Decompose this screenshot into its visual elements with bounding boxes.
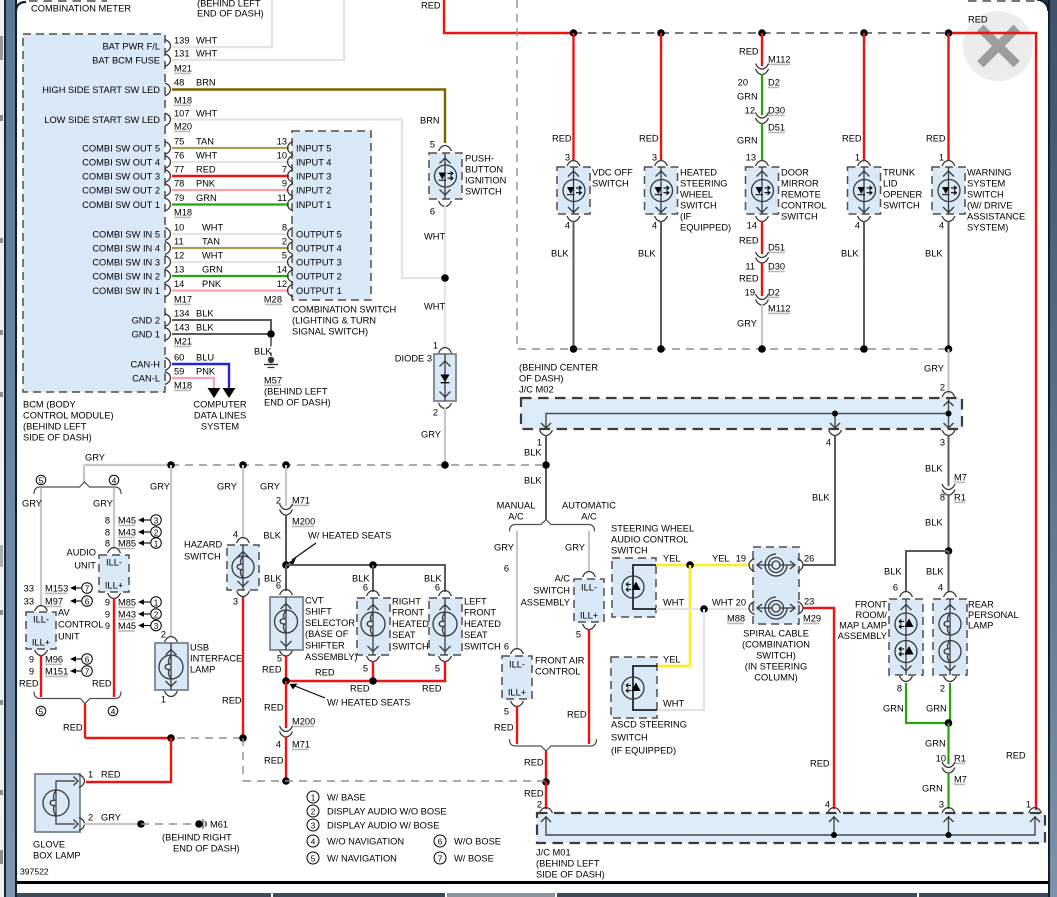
red chain M200 M71 down to dashed node <box>285 681 287 728</box>
BLK wire J/C M02 pin1 down to illumination bus <box>545 435 547 520</box>
hazard RED wire down <box>242 597 244 738</box>
door mirror GRY wire to junction bus <box>761 305 763 350</box>
wire 131 WHT from BCM <box>172 0 344 60</box>
TRUNK LID OPENER SWITCH <box>858 161 871 167</box>
J/C M01 junction box <box>540 808 553 814</box>
GRN wire from map lamp <box>906 683 949 723</box>
COMBI SW OUT wires to combination switch <box>172 147 289 149</box>
WHT wire below push-button switch to diode <box>444 206 446 349</box>
wire 48 BRN to push-button ignition switch <box>172 90 445 144</box>
GRY/BLK chain M71 M200 to CVT selector <box>285 465 287 506</box>
GLOVE BOX LAMP <box>35 774 80 832</box>
BLK bus to heated seat switches <box>282 561 290 569</box>
combination switch pin brackets <box>288 142 294 155</box>
DOOR MIRROR REMOTE CONTROL SWITCH <box>756 161 769 167</box>
combination switch box (lighting and turn signal) <box>292 131 371 300</box>
audio unit RED wire <box>113 598 115 697</box>
dashed link hazard to usb node <box>177 737 243 739</box>
GRY wire to A/C switch assembly <box>588 531 590 572</box>
GRY wire to audio unit <box>113 488 115 549</box>
AV unit RED wire <box>40 655 42 697</box>
WHT branch to ASCD switch <box>658 609 704 710</box>
trunk lid BLK wire down <box>863 221 865 349</box>
switch drop heated steering - red <box>660 33 662 160</box>
GRY wire to hazard switch <box>242 465 244 539</box>
GRY wire to AV control unit <box>40 488 42 607</box>
warning switch BLK wire down <box>948 221 950 349</box>
CVT SHIFT SELECTOR lamp <box>280 590 293 596</box>
BCM (Body Control Module) box <box>23 34 165 392</box>
REAR PERSONAL LAMP <box>944 592 957 598</box>
dashed collector bus for switch grounds <box>517 0 949 349</box>
illumination dashed bus <box>171 464 546 466</box>
VDC BLK wire down <box>573 221 575 349</box>
dash-dot link to A/C red node <box>243 780 546 782</box>
BLK to rear personal lamp <box>948 551 950 592</box>
GRY wire into J/C M02 pin 2 <box>947 349 949 394</box>
HEATED STEERING WHEEL SWITCH <box>655 161 668 167</box>
J/C M02 internal bus <box>546 398 949 427</box>
CVT red wire to red bus <box>285 656 287 681</box>
wire 107 WHT <box>172 120 445 279</box>
top right cut-off dashed box <box>968 0 1043 2</box>
CAN-H wire 60 BLU <box>172 364 229 388</box>
WARNING SYSTEM SWITCH <box>942 161 955 167</box>
AV CONTROL UNIT box <box>35 606 48 612</box>
switch drop trunk lid - red <box>863 33 865 160</box>
BLK wire J/C M02 pin3 down with M7 R1 connector <box>948 435 950 486</box>
CAN-L wire 59 PNK <box>172 378 214 388</box>
red merge brace 5/4 <box>34 692 121 704</box>
YEL wire to spiral cable pin 19 <box>656 564 750 567</box>
BLK branch to front room map lamp <box>906 551 949 592</box>
door mirror lower chain D51 D30 D2 M112 <box>761 221 763 254</box>
SPIRAL CABLE box <box>753 547 799 624</box>
red merge brace to J/C M01 pin2 <box>510 739 597 751</box>
BLK wire spiral pin26 up to J/C M02 pin4 <box>803 435 835 565</box>
BLK into CVT selector pin 6 <box>285 565 287 591</box>
ground M57 <box>270 338 272 356</box>
dashed link down to legend level <box>242 738 244 781</box>
GRY wire to front air control <box>516 531 518 650</box>
switch drop VDC OFF - red <box>572 33 574 160</box>
YEL branch to ASCD switch <box>658 565 690 666</box>
wire 139 WHT from BCM to combination meter <box>172 0 272 47</box>
switch drop warning system - red <box>947 33 949 160</box>
GND wires from BCM <box>172 320 271 334</box>
BCM pin brackets <box>165 40 171 53</box>
COMBI SW IN wires <box>172 233 289 235</box>
legend of option notes <box>307 791 319 803</box>
computer data lines arrows <box>208 388 221 398</box>
ASCD STEERING SWITCH <box>611 657 657 718</box>
heated steering BLK wire down <box>660 221 662 349</box>
red wire to glove box lamp <box>86 738 171 782</box>
GRY wire to USB interface lamp <box>170 465 172 637</box>
VDC OFF SWITCH <box>567 161 580 167</box>
GRY wire from diode to illumination bus <box>444 408 446 464</box>
combination meter box (cut off at top) <box>29 0 107 2</box>
WHT wire to spiral cable pin 20 <box>656 608 750 610</box>
door mirror drop with connectors M112 D2 D30 D51 <box>761 33 763 66</box>
A/C switch red wire down <box>588 629 590 744</box>
GRN wire from rear lamp down through R1 M7 to J/C M01 pin3 <box>949 683 951 723</box>
RED wire spiral pin23 down to J/C M01 pin4 <box>803 608 834 809</box>
front air control red wire down <box>516 706 518 744</box>
illumination GRY branch 5/4 split brace <box>83 465 85 483</box>
